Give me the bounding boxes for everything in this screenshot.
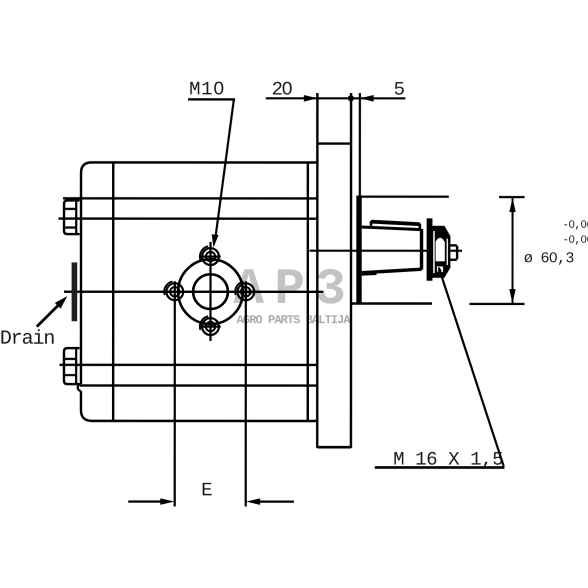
bearing housing bottom line xyxy=(350,302,432,304)
shaft cone end face xyxy=(420,229,423,270)
zero-dot covers xyxy=(217,86,585,259)
M16 leader tip xyxy=(438,267,442,272)
svg-text:-0,06: -0,06 xyxy=(562,235,588,247)
bolt hole right xyxy=(235,281,254,300)
svg-text:5: 5 xyxy=(394,79,405,101)
body horizontal line lower xyxy=(80,384,317,387)
nut facet white slit left xyxy=(433,231,435,273)
shaft bore circle xyxy=(193,274,228,309)
watermark subtitle AGRO PARTS BALTIJA xyxy=(237,313,352,327)
watermark APB logo xyxy=(233,262,350,319)
drain arrow line xyxy=(37,304,60,327)
M10 underline xyxy=(188,98,235,100)
pump body bottom-left corner arc xyxy=(81,410,92,421)
svg-text:20: 20 xyxy=(272,78,293,100)
pump body left-edge relief notch xyxy=(78,384,81,391)
svg-text:-0,06: -0,06 xyxy=(562,220,588,232)
flange plate bottom edge xyxy=(317,446,351,449)
E arrowhead left-pointing xyxy=(246,498,260,505)
bearing housing top line xyxy=(360,196,449,198)
lower port boss bands xyxy=(64,359,76,375)
drain port strip xyxy=(72,262,78,321)
lower port centre line xyxy=(59,364,317,367)
extension line from right bolt to E dimension xyxy=(245,281,247,506)
bearing housing face band xyxy=(356,196,361,304)
front cover joint line xyxy=(112,162,115,421)
flange plate front face xyxy=(316,93,319,448)
shaft centre line xyxy=(310,250,463,252)
extension line from left bolt to E dimension xyxy=(174,281,176,506)
nut bottom leader notch xyxy=(437,266,443,271)
shaft cone top edge xyxy=(362,227,422,230)
svg-text:ø 60,3: ø 60,3 xyxy=(524,250,575,267)
flange plate rear face xyxy=(350,93,353,448)
arrowhead up xyxy=(509,198,515,212)
dimension dot at flange rear xyxy=(348,95,354,101)
diameter 60.3 bottom extension stub xyxy=(469,303,524,305)
upper port boss face line xyxy=(75,200,77,234)
upper port boss bands xyxy=(64,209,76,228)
E arrowhead right-pointing xyxy=(160,498,174,505)
shaft cone bottom flat xyxy=(362,273,377,276)
arrowhead down xyxy=(509,289,515,303)
pump body outline xyxy=(81,162,317,421)
drain centre line xyxy=(64,290,323,293)
pump body top-left corner arc xyxy=(81,162,92,173)
bolt hole top xyxy=(200,246,221,265)
M16 underline xyxy=(375,466,505,469)
nut middle facet white barrel xyxy=(436,238,445,261)
body horizontal line upper xyxy=(63,197,317,200)
M16 leader line xyxy=(439,268,504,467)
flange plate top edge xyxy=(317,142,351,144)
shaft key end ticks xyxy=(371,221,420,230)
E dimension line right xyxy=(255,500,294,502)
nut M16 body xyxy=(432,226,451,278)
svg-text:E: E xyxy=(201,479,212,501)
svg-text:Drain: Drain xyxy=(0,328,54,351)
M10 leader arrowhead xyxy=(212,234,219,247)
thread stub xyxy=(449,245,457,259)
lower port boss face line xyxy=(75,348,77,384)
diameter 60.3 dimension line xyxy=(511,198,513,304)
svg-text:AGRO PARTS BALTIJA: AGRO PARTS BALTIJA xyxy=(237,313,352,327)
drain arrowhead xyxy=(55,296,67,308)
diameter 60.3 top extension stub xyxy=(499,196,525,198)
arrowhead pointing right at flange front xyxy=(304,95,318,102)
arrowhead pointing left at housing face xyxy=(360,95,374,102)
extension line of bearing housing face xyxy=(359,93,361,197)
shaft key top line xyxy=(371,222,420,225)
shaft cone bottom edge xyxy=(362,269,422,273)
lower port boss xyxy=(64,348,80,384)
upper port boss xyxy=(64,200,80,234)
washer xyxy=(427,218,433,280)
bolt hole left xyxy=(164,281,183,300)
nut facet white slit right xyxy=(447,239,448,266)
bolt hole bottom xyxy=(200,316,221,335)
vertical centre line of bolt circle xyxy=(209,242,211,341)
dimension line 20 and 5 xyxy=(266,97,406,99)
E dimension line left xyxy=(128,500,165,502)
pump body right edge xyxy=(307,163,310,422)
upper port centre line xyxy=(59,217,318,220)
M10 leader line xyxy=(215,99,234,238)
mounting pilot circle xyxy=(178,259,243,324)
